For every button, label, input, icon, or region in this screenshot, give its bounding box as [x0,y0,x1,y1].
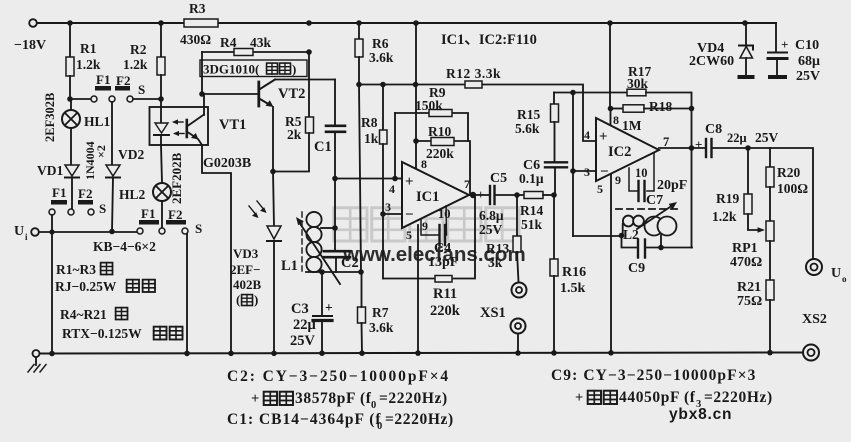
svg-text:C2: CY−3−250−10000pF×4: C2: CY−3−250−10000pF×4 [227,368,450,385]
svg-text:25V: 25V [755,130,779,145]
svg-text:68μ: 68μ [798,54,820,69]
svg-text:44050pF (f: 44050pF (f [619,389,696,406]
wire R6 node down to tank [359,85,361,273]
svg-text:R6: R6 [372,36,389,51]
IC2 pins 9 10 and 20pF capacitor [629,153,654,191]
svg-text:VD2: VD2 [118,147,144,162]
VT2 collector wire to C1 [275,79,335,81]
svg-text:10: 10 [438,207,451,221]
svg-text:0: 0 [377,421,382,432]
svg-text:1.2k: 1.2k [123,57,148,72]
ground symbol [33,350,40,357]
svg-text:=2220Hz): =2220Hz) [704,389,773,406]
VT1 emitter wire down to rail [202,145,231,353]
svg-text:−: − [405,207,414,223]
terminal -18V [29,19,37,27]
diode VD2 [106,165,120,176]
switch row2 blade bars [51,200,67,205]
L1 arrow [299,222,340,284]
resistor R8 on vertical [382,85,384,131]
jack XS2 [803,345,819,361]
inductor L1 [306,212,321,227]
svg-text:ybx8.cn: ybx8.cn [669,406,732,423]
svg-text:U: U [14,224,24,239]
svg-text:IC2: IC2 [608,144,631,160]
capacitor C2 [334,228,336,250]
svg-text:HL1: HL1 [84,114,111,129]
svg-text:9: 9 [422,219,428,233]
svg-text:3: 3 [584,165,590,179]
svg-text:3: 3 [385,200,391,214]
svg-text:VD1: VD1 [37,163,63,178]
input wire Ui [39,231,137,233]
wire S contact down to rail [186,234,188,353]
VT2 emitter wire down [272,107,274,172]
svg-text:22μ: 22μ [727,131,747,145]
wire HL1 top [70,99,72,110]
svg-text:+: + [575,390,583,406]
svg-text:430Ω: 430Ω [180,32,211,47]
diode VD1 [65,165,79,176]
svg-text:F2: F2 [168,207,182,222]
svg-text:2k: 2k [287,127,302,142]
switch row3 blade bars [139,220,159,225]
svg-text:F1: F1 [96,72,110,87]
node R6 bottom [356,82,362,88]
lamp HL2 [153,183,171,201]
tank signal wire to pin4 [335,178,395,180]
IC1 pin3 node and wire [380,211,386,217]
zener VD4 [745,23,747,45]
svg-text:G0203B: G0203B [203,156,251,171]
node VD2 bottom on input wire [109,229,115,235]
svg-text:75Ω: 75Ω [737,294,762,309]
node R4 right [306,49,312,55]
resistor R19 [747,148,749,194]
wire to switch contacts [70,98,91,100]
opto light arrows [174,121,183,123]
svg-text:1.2k: 1.2k [76,57,101,72]
svg-text:×2: ×2 [94,145,108,158]
svg-text:R1: R1 [80,41,97,56]
IC2 pin5 wire to rail [610,174,612,353]
svg-text:R21: R21 [737,280,761,295]
label box 3DG1010 [200,60,307,77]
output branch to R20 [769,148,771,167]
resistor R17 [627,89,646,96]
svg-text:1M: 1M [622,118,642,133]
wire C1/C2 node down [334,179,336,229]
switch row3 contacts [137,228,143,234]
svg-text:43k: 43k [250,35,272,50]
svg-text:S: S [99,201,106,216]
wire VD3 top from emitter node [273,172,274,227]
svg-text:VT2: VT2 [278,86,305,102]
svg-text:25V: 25V [796,69,820,84]
svg-text:13pF: 13pF [428,255,458,270]
switch row1 blade bars [95,86,111,91]
svg-text:R3: R3 [189,1,206,16]
svg-text:R4: R4 [220,35,237,50]
svg-text:−: − [600,164,609,180]
node dots on top rail [67,20,73,26]
capacitor C1 [334,80,336,125]
svg-text:R10: R10 [428,124,451,139]
wire R1 top [69,23,71,57]
svg-text:o: o [842,274,847,284]
svg-text:25V: 25V [479,222,503,237]
svg-text:C9: CY−3−250−10000pF×3: C9: CY−3−250−10000pF×3 [551,367,757,384]
opto phototransistor [186,120,189,137]
terminal Ui [31,228,39,236]
svg-text:VD3: VD3 [233,246,259,261]
svg-text:6.8μ: 6.8μ [479,208,504,223]
svg-text:C5: C5 [490,171,507,186]
svg-text:C3: C3 [291,301,309,317]
svg-text:402B: 402B [233,277,262,292]
resistor R18 [611,108,624,110]
svg-text:XS1: XS1 [480,305,506,321]
jack XS1 [512,283,527,298]
svg-text:2EF302B: 2EF302B [43,93,57,142]
svg-text:0.1μ: 0.1μ [519,171,544,186]
svg-text:XS2: XS2 [802,312,827,327]
svg-text:220k: 220k [426,146,454,161]
svg-text:+: + [599,129,608,145]
wire R4 left down to base node [201,52,203,94]
svg-text:U: U [831,266,841,281]
R9 left leg down to pin4 node [394,113,396,179]
svg-text:1k: 1k [364,131,379,146]
opto LED [160,99,162,123]
svg-text:38578pF (f: 38578pF (f [295,390,372,407]
variable capacitor C7 [645,217,664,236]
svg-text:i: i [25,232,28,242]
svg-text:RJ−0.25W: RJ−0.25W [55,279,117,294]
bias line with R12 [359,85,596,142]
svg-text:R8: R8 [361,115,378,130]
feedback vertical to output [691,93,693,248]
resistor R7 [358,307,366,323]
IC1 pin8 tick [415,141,417,169]
wire R2 top [160,23,162,57]
feedback R11 [383,195,475,279]
IC1 pins 9 10 and capacitor C4 [421,206,447,235]
wire R1 bottom [69,76,71,99]
svg-text:+: + [781,37,788,52]
resistor R12 [465,81,482,88]
svg-text:+: + [251,391,259,407]
svg-text:100Ω: 100Ω [777,181,808,196]
svg-text:F1: F1 [141,206,155,221]
svg-text:8: 8 [613,113,619,127]
resistor R20 [766,167,774,187]
IC2 pin8 tick [610,109,612,127]
svg-text:F1: F1 [52,185,66,200]
svg-text:R15: R15 [517,107,540,122]
optocoupler VT1 box [150,107,209,145]
svg-text:=2220Hz): =2220Hz) [379,390,448,407]
ground rail junction dots [49,351,55,357]
svg-text:S: S [138,82,145,97]
svg-text:C7: C7 [646,193,663,208]
svg-text:9: 9 [615,173,621,187]
op-amp IC1 [402,162,469,228]
resistor R14 [524,192,543,199]
svg-text:): ) [292,62,296,77]
svg-text:HL2: HL2 [119,187,146,202]
resistor R13 [516,195,518,236]
svg-text:2EF202B: 2EF202B [169,152,184,204]
svg-text:R14: R14 [520,203,543,218]
svg-text:F2: F2 [78,186,92,201]
resistor R3 [184,19,218,27]
svg-text:4: 4 [389,182,395,196]
svg-text:F2: F2 [116,73,130,88]
tank wire pin3 to L2 [573,235,622,237]
svg-text:5: 5 [406,228,412,242]
svg-text:S: S [195,221,202,236]
potentiometer RP1 [766,221,774,241]
switch row2 contacts [49,209,55,215]
svg-text:−18V: −18V [14,38,46,53]
capacitor C10 [775,23,777,51]
svg-text:C4: C4 [434,241,451,256]
resistor R1 [66,57,74,76]
svg-text:51k: 51k [521,217,543,232]
photodiode VD3 [267,226,281,239]
svg-text:C1: C1 [314,139,332,155]
svg-text:+: + [477,187,484,202]
svg-text:R18: R18 [649,99,672,114]
svg-text:R4~R21: R4~R21 [60,307,107,322]
svg-text:20pF: 20pF [657,178,687,193]
wire HL2 top [161,145,162,183]
svg-text:7: 7 [663,135,669,149]
node at R1 bottom [67,96,73,102]
capacitor C6 [545,161,567,163]
IC1 output node [470,192,476,198]
svg-text:=2220Hz): =2220Hz) [385,411,454,428]
svg-text:R7: R7 [372,305,389,320]
tank bottom wire [306,271,361,273]
dashed screen line [616,208,680,210]
wire R2 bottom [160,75,162,99]
svg-text:3DG1010(: 3DG1010( [203,62,259,77]
terminal Uo [806,259,822,275]
wire left contact down to input line and ground rail [51,215,53,353]
svg-text:3k: 3k [488,255,503,270]
svg-text:R20: R20 [777,165,800,180]
svg-text:C10: C10 [795,38,819,53]
svg-text:3.6k: 3.6k [369,320,394,335]
svg-text:150k: 150k [415,98,443,113]
svg-text:R11: R11 [433,286,457,302]
inductor L1 dashed core [301,212,303,271]
svg-text:C2: C2 [341,255,359,271]
svg-text:1.5k: 1.5k [560,281,586,296]
resistor R6 [358,23,360,39]
svg-text:10: 10 [635,166,648,180]
svg-text:IC1、IC2:F110: IC1、IC2:F110 [441,32,537,48]
wire HL2 bottom [161,201,163,228]
switch row1 contacts [91,96,97,102]
svg-text:RTX−0.125W: RTX−0.125W [62,326,142,341]
resistor R9 [395,113,468,141]
svg-text:5: 5 [597,182,603,196]
svg-text:R1~R3: R1~R3 [56,262,96,277]
wire rail to IC2 pin8 [609,23,611,108]
svg-text:30k: 30k [627,76,649,91]
svg-text:470Ω: 470Ω [730,255,762,270]
svg-text:7: 7 [464,177,470,191]
svg-text:22μ: 22μ [293,317,317,333]
C7 arrow [637,205,673,229]
node x416 on bias line [413,82,419,88]
wire rail to R10 node [415,23,417,141]
svg-text:R19: R19 [716,191,739,206]
svg-text:R13: R13 [486,241,509,256]
capacitor C3 electrolytic [321,272,323,315]
svg-text:4: 4 [584,128,590,142]
svg-text:VT1: VT1 [219,117,246,133]
wire pin3 node vertical [572,93,574,237]
resistor R21 [769,241,771,280]
svg-text:R12 3.3k: R12 3.3k [446,66,501,81]
resistor R16 [553,195,555,259]
svg-text:+: + [325,300,333,315]
lamp HL1 [62,110,80,128]
resistor R10 [416,141,470,194]
node R19 top [745,145,751,151]
resistor R15 and capacitor C6 chain [553,93,555,105]
wire HL1 to VD1 [70,128,72,165]
top supply rail [37,22,776,24]
resistor R2 [157,57,165,75]
transistor VT2 [257,82,260,106]
wire opto collector to VT2 base [204,93,258,95]
op-amp IC2 [596,118,659,181]
svg-text:C8: C8 [705,122,722,137]
svg-text:KB−4−6×2: KB−4−6×2 [93,239,156,254]
inductor L2 [622,224,624,236]
wire contact to R2 branch [133,98,161,100]
IC2 pin3 wire [570,168,576,174]
svg-text:L1: L1 [281,258,298,274]
ground rail [39,353,803,354]
svg-text:220k: 220k [430,303,461,319]
resistor R4 [202,51,309,53]
IC2 output wire [659,147,705,149]
resistor R5 [308,52,310,117]
VD3 light arrows [249,206,257,216]
L1 tap wire to C2 [321,227,335,229]
svg-text:RP1: RP1 [732,241,758,256]
svg-text:R16: R16 [562,265,586,280]
svg-text:+: + [405,174,414,190]
output wire to Uo terminal [770,148,813,259]
svg-text:0: 0 [371,400,376,411]
R15/R17 interconnect wire [554,92,627,94]
wire VD1 to contact [71,178,73,209]
svg-text:2EF−: 2EF− [230,262,261,277]
svg-text:C9: C9 [628,261,645,276]
node C5/R14 [514,192,520,198]
svg-text:25V: 25V [290,333,316,349]
svg-text:5.6k: 5.6k [515,121,540,136]
svg-text:IC1: IC1 [416,189,439,205]
svg-text:2CW60: 2CW60 [689,54,734,69]
wire VD2 to input line [112,178,113,232]
svg-text:(: ( [236,292,240,307]
IC1 pin5 wire to rail [417,225,419,353]
svg-text:3.6k: 3.6k [369,50,394,65]
wire VD2 top from middle contact [111,102,113,165]
svg-text:1.2k: 1.2k [712,209,737,224]
svg-text:R2: R2 [130,42,147,57]
svg-text:+: + [695,137,702,152]
watermark [334,208,526,266]
tank bottom wire with C9 [622,236,693,248]
svg-text:): ) [254,292,258,307]
svg-text:C1: CB14−4364pF (f: C1: CB14−4364pF (f [227,411,382,428]
